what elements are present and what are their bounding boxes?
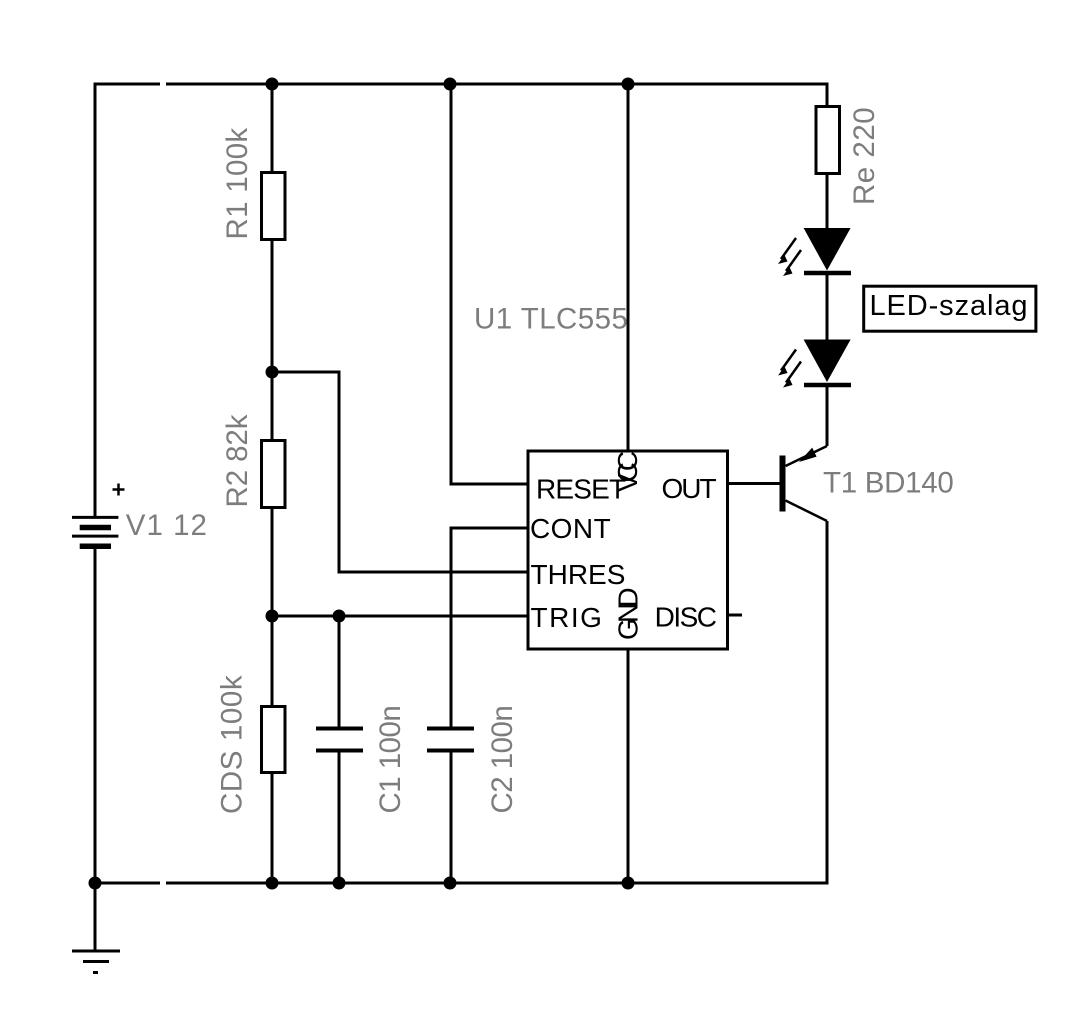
svg-text:GND: GND	[613, 589, 644, 640]
svg-text:CONT: CONT	[530, 513, 611, 544]
svg-text:CDS 100k: CDS 100k	[216, 675, 249, 814]
svg-text:C1 100n: C1 100n	[374, 706, 407, 814]
svg-text:V1 12: V1 12	[126, 509, 208, 542]
svg-text:DISC: DISC	[655, 602, 717, 633]
svg-text:T1 BD140: T1 BD140	[823, 467, 953, 500]
svg-text:R1 100k: R1 100k	[221, 128, 254, 240]
svg-text:R2 82k: R2 82k	[221, 414, 254, 507]
svg-text:THRES: THRES	[531, 559, 626, 590]
svg-text:OUT: OUT	[662, 473, 717, 504]
svg-text:Re 220: Re 220	[848, 107, 881, 205]
svg-text:TRIG: TRIG	[531, 602, 604, 633]
svg-text:LED-szalag: LED-szalag	[870, 290, 1029, 322]
svg-text:U1 TLC555: U1 TLC555	[474, 303, 628, 336]
svg-text:C2 100n: C2 100n	[486, 706, 519, 814]
